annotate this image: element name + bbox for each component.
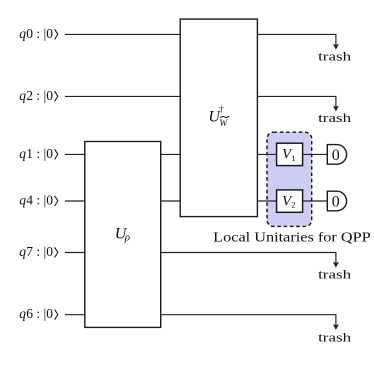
svg-text:†: † [219,105,224,115]
wire q1 [65,153,327,155]
svg-text:q: q [19,244,26,259]
wire q6 [65,314,337,316]
box U dagger W-tilde [180,19,257,217]
label q7 ket [19,244,58,259]
wire q2 [65,95,337,97]
trash arrow q7 [333,253,339,268]
svg-text:7 : |0: 7 : |0 [26,244,53,259]
label V1 [282,147,295,163]
svg-text:0: 0 [332,194,340,211]
box V2 [277,190,303,212]
svg-text:6 : |0: 6 : |0 [26,306,53,321]
label q0 ket [19,26,58,41]
label q6 ket [19,306,58,321]
trash arrow q2 [333,96,339,111]
svg-text:q: q [19,88,26,103]
svg-text:0 : |0: 0 : |0 [26,26,53,41]
wire q0 [65,33,337,35]
svg-text:q: q [19,26,26,41]
svg-text:0: 0 [332,147,340,164]
label q2 ket [19,88,58,103]
measure 0 on q1 [327,145,346,165]
svg-text:1 : |0: 1 : |0 [26,146,53,161]
wire q4 [65,200,327,202]
label V2 [282,193,295,209]
label q4 ket [19,193,58,208]
svg-text:ρ: ρ [124,231,130,243]
wire q7 [65,252,337,254]
trash arrow q0 [333,34,339,49]
svg-text:trash: trash [318,268,351,282]
svg-text:trash: trash [318,330,351,344]
svg-text:4 : |0: 4 : |0 [26,193,53,208]
svg-text:trash: trash [318,111,351,125]
label U_rho [115,225,130,243]
svg-text:Local Unitaries for QPP: Local Unitaries for QPP [213,229,371,244]
trash arrow q6 [333,315,339,330]
svg-text:q: q [19,146,26,161]
svg-text:1: 1 [291,153,295,163]
svg-text:W: W [219,119,228,129]
label U^dagger_Wtilde [208,105,229,129]
label q1 ket [19,146,58,161]
svg-text:q: q [19,193,26,208]
measure 0 on q4 [327,191,346,211]
svg-text:trash: trash [318,49,351,63]
svg-text:2: 2 [291,200,295,210]
dashed purple region: Local Unitaries for QPP [267,132,312,226]
svg-text:2 : |0: 2 : |0 [26,88,53,103]
box U_rho [85,142,161,328]
box V1 [277,143,303,165]
svg-text:q: q [19,306,26,321]
